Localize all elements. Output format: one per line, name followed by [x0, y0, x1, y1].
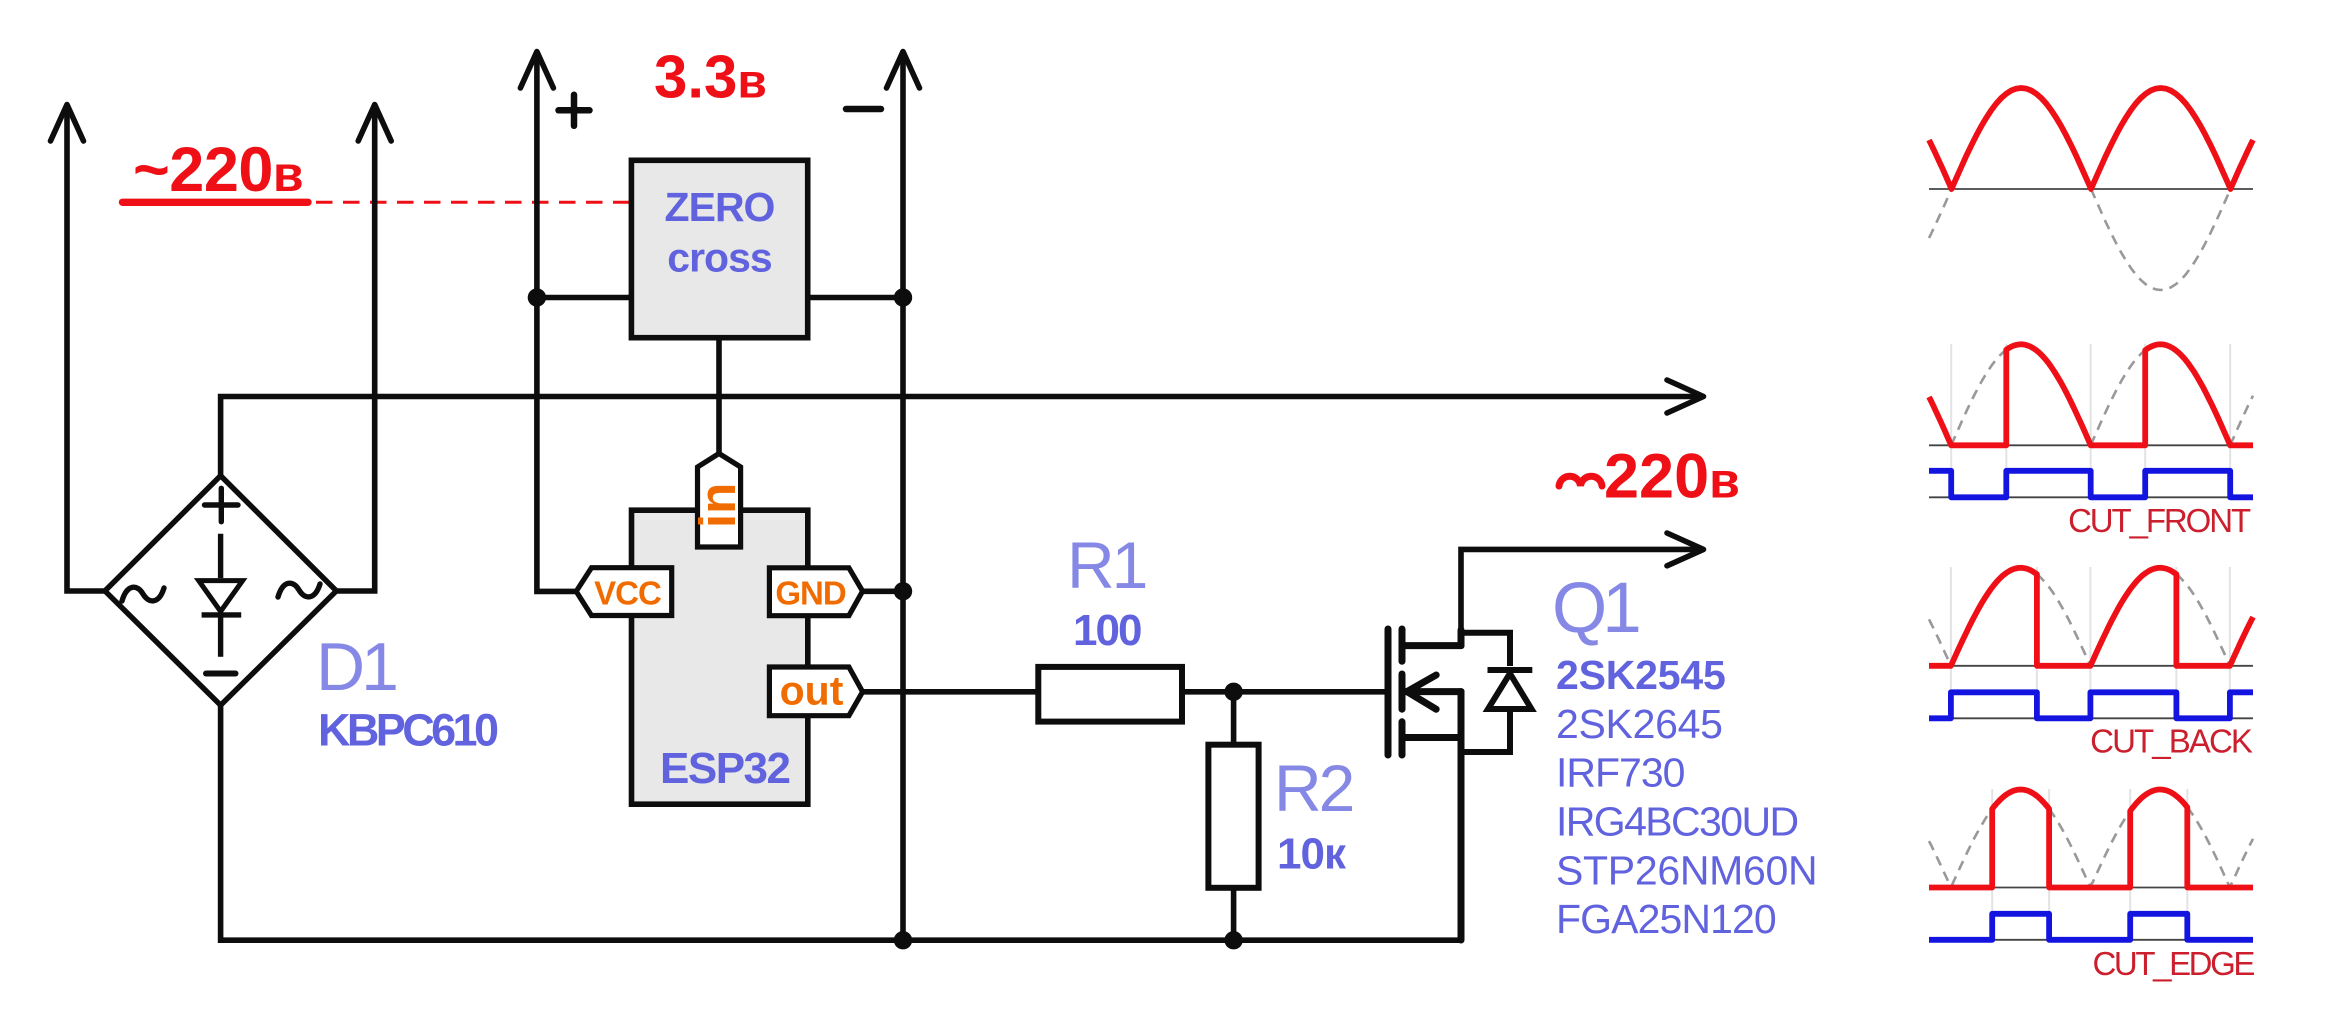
body diode of Q1 [1461, 633, 1532, 752]
wire rectified + output with arrow (bridge + to right) [221, 380, 1704, 476]
svg-text:FGA25N120: FGA25N120 [1556, 896, 1776, 942]
svg-text:ESP32: ESP32 [660, 744, 790, 793]
minus sign label [846, 106, 881, 113]
svg-text:STP26NM60N: STP26NM60N [1556, 847, 1817, 893]
svg-text:D1: D1 [316, 629, 396, 705]
wire ZERO cross output to ESP32 in pin [716, 338, 722, 455]
svg-text:IRG4BC30UD: IRG4BC30UD [1556, 799, 1797, 845]
pin in (ESP32 top, pentagon) [698, 454, 741, 548]
svg-text:2SK2545: 2SK2545 [1556, 652, 1726, 698]
svg-text:CUT_BACK: CUT_BACK [2090, 723, 2253, 760]
wire +3.3V rail with arrow (down to VCC pin) [520, 52, 576, 592]
plus sign label [559, 95, 590, 126]
node -rail / bottom return [894, 931, 912, 949]
waveform CUT_EDGE [1929, 789, 2254, 982]
resistor R1 (box) [1038, 667, 1182, 722]
zero-cross detector block [631, 160, 807, 337]
svg-text:GND: GND [775, 575, 846, 612]
bridge rectifier D1 (diamond symbol) [105, 476, 337, 706]
node +rail / zero-cross supply [528, 288, 546, 306]
wire bottom return (bridge - to MOSFET source) [221, 705, 1461, 940]
svg-text:2SK2645: 2SK2645 [1556, 701, 1723, 747]
resistor R2 (box) [1208, 745, 1258, 888]
svg-text:VCC: VCC [594, 575, 661, 612]
node -rail / GND pin [894, 582, 912, 600]
waveform CUT_FRONT [1929, 344, 2253, 539]
svg-text:CUT_EDGE: CUT_EDGE [2093, 945, 2255, 982]
svg-text:R2: R2 [1274, 751, 1353, 825]
svg-text:3.3в: 3.3в [654, 44, 767, 111]
svg-text:220в: 220в [1604, 442, 1740, 512]
svg-text:R1: R1 [1067, 528, 1146, 602]
svg-text:cross: cross [667, 234, 772, 280]
svg-text:out: out [780, 668, 844, 714]
node -rail / zero-cross supply [894, 288, 912, 306]
ESP32 block [632, 510, 808, 804]
wire R1/R2 node down to R2 and R2 to bottom return [1231, 692, 1237, 940]
wire 3.3V supply to ZERO cross block (horizontal, behind block) [537, 295, 903, 301]
wire -3.3V rail with arrow (down to bottom return) [887, 52, 920, 941]
transistor Q1 N-MOSFET symbol [1388, 629, 1461, 940]
wire AC input B with arrow (second rail to bridge right corner) [336, 105, 391, 592]
svg-text:Q1: Q1 [1552, 569, 1639, 648]
wire out pin to R1 and to Q1 gate [863, 689, 1385, 695]
waveform full-wave rectified sine (top right) [1929, 88, 2253, 290]
node R1-R2-gate [1224, 683, 1242, 701]
wire Q1 drain to ~220V output with arrow [1461, 533, 1704, 648]
node R2 / bottom return [1224, 931, 1242, 949]
net ~220V mains marker (red solid + dashed line) [123, 199, 632, 206]
svg-text:IRF730: IRF730 [1556, 750, 1685, 796]
svg-text:10к: 10к [1277, 829, 1347, 878]
svg-text:100: 100 [1073, 606, 1141, 655]
pin VCC [576, 568, 672, 616]
svg-text:~220в: ~220в [133, 135, 303, 205]
wire GND pin to -rail [863, 588, 903, 594]
svg-text:in: in [689, 483, 746, 528]
svg-text:ZERO: ZERO [665, 184, 775, 230]
pin GND [769, 568, 862, 616]
waveform CUT_BACK [1929, 567, 2253, 760]
wire AC input A with arrow (left rail to bridge left corner) [51, 105, 106, 592]
label ~220V output (red) with sine squiggle [1559, 476, 1602, 486]
pin out [769, 667, 862, 716]
svg-text:KBPC610: KBPC610 [318, 705, 498, 756]
svg-text:CUT_FRONT: CUT_FRONT [2068, 502, 2251, 539]
